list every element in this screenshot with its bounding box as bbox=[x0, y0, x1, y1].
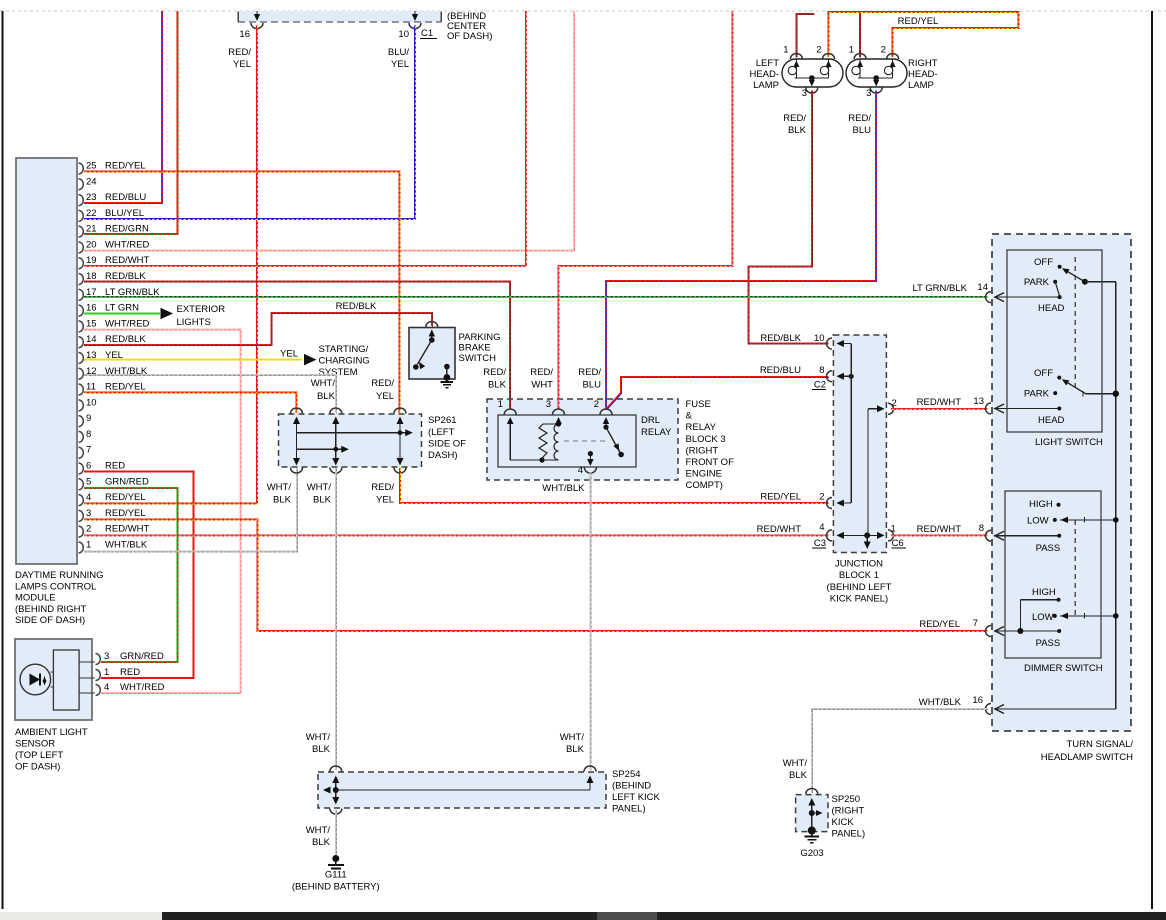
svg-text:RED/BLK: RED/BLK bbox=[105, 334, 146, 345]
svg-text:ENGINE: ENGINE bbox=[686, 469, 722, 480]
svg-text:BLU/YEL: BLU/YEL bbox=[105, 208, 144, 219]
svg-text:RED/: RED/ bbox=[530, 367, 553, 378]
svg-text:3: 3 bbox=[866, 88, 871, 99]
svg-text:19: 19 bbox=[86, 255, 97, 266]
relay pin 3 internal arrow bbox=[558, 423, 560, 424]
svg-text:1: 1 bbox=[498, 399, 503, 410]
splice SP250 box bbox=[796, 795, 828, 832]
svg-text:14: 14 bbox=[86, 334, 97, 345]
svg-text:2: 2 bbox=[86, 524, 91, 535]
svg-text:PARK: PARK bbox=[1024, 389, 1050, 400]
svg-text:AMBIENT LIGHT: AMBIENT LIGHT bbox=[15, 727, 88, 738]
splice SP261 box bbox=[279, 414, 422, 467]
junction C3-C6 internal bus bbox=[838, 534, 882, 536]
svg-text:SIDE OF: SIDE OF bbox=[428, 439, 466, 450]
svg-text:RED/WHT: RED/WHT bbox=[917, 397, 962, 408]
SP261 bottom arrow x=335.8 bbox=[332, 458, 339, 466]
svg-text:C6: C6 bbox=[892, 538, 904, 549]
light switch wafer 1 park link bbox=[1055, 282, 1059, 296]
parking brake switch fixed contact bbox=[444, 364, 450, 370]
module pin 7 bbox=[79, 447, 84, 458]
svg-text:HEADLAMP SWITCH: HEADLAMP SWITCH bbox=[1041, 752, 1133, 763]
svg-text:3: 3 bbox=[802, 88, 807, 99]
svg-text:RED/YEL: RED/YEL bbox=[105, 492, 146, 503]
svg-text:BLK: BLK bbox=[566, 744, 585, 755]
svg-text:5: 5 bbox=[86, 476, 91, 487]
module pin 14 bbox=[79, 337, 84, 348]
junction pin 8 cup bbox=[827, 371, 832, 382]
svg-text:BLK: BLK bbox=[788, 125, 807, 136]
svg-text:1: 1 bbox=[104, 667, 109, 678]
module pin 13 bbox=[79, 352, 84, 363]
svg-text:SP250: SP250 bbox=[832, 794, 861, 805]
svg-text:RED/: RED/ bbox=[371, 482, 394, 493]
svg-text:RED/YEL: RED/YEL bbox=[760, 492, 801, 503]
dimmer pin 8 line bbox=[994, 535, 1059, 537]
svg-text:C2: C2 bbox=[814, 380, 826, 391]
light switch pin 16 cup bbox=[986, 704, 991, 715]
svg-text:3: 3 bbox=[104, 651, 109, 662]
relay pin 3 cup bbox=[553, 409, 565, 414]
svg-text:RED/: RED/ bbox=[578, 367, 601, 378]
wire LT GRN/BLK module pin 17 to light switch pin 14 bbox=[84, 296, 988, 298]
wire RED/BLU junction C2 pin 8 to relay pin 2 bbox=[621, 377, 828, 394]
svg-text:WHT/BLK: WHT/BLK bbox=[919, 697, 962, 708]
junction internal vertical bus B bbox=[867, 409, 869, 536]
dimmer wafer 2 high link bbox=[1019, 600, 1021, 631]
svg-text:SYSTEM: SYSTEM bbox=[319, 367, 358, 378]
page left border bbox=[2, 11, 4, 909]
relay pin 1 cup bbox=[504, 409, 516, 414]
sensor pin 1 bbox=[79, 677, 95, 679]
svg-text:G203: G203 bbox=[800, 848, 823, 859]
junction internal vertical bus A bbox=[850, 344, 852, 504]
svg-text:3: 3 bbox=[86, 508, 91, 519]
wire RED/WHT junction pin 2 to light switch pin 13 bbox=[891, 408, 988, 410]
module pin 5 bbox=[79, 479, 84, 490]
svg-text:RED/GRN: RED/GRN bbox=[105, 224, 149, 235]
wire WHT/BLK module pin 1 to SP261 bbox=[84, 468, 297, 551]
svg-text:1: 1 bbox=[86, 539, 91, 550]
parking brake switch arm bbox=[429, 337, 435, 343]
svg-text:BRAKE: BRAKE bbox=[459, 343, 491, 354]
svg-text:LOW: LOW bbox=[1032, 612, 1054, 623]
svg-text:RED/: RED/ bbox=[483, 367, 506, 378]
SP261 bottom cup x=335.8 bbox=[330, 468, 342, 474]
svg-text:RED/: RED/ bbox=[848, 113, 871, 124]
svg-text:(BEHIND BATTERY): (BEHIND BATTERY) bbox=[292, 882, 380, 893]
svg-text:RED: RED bbox=[120, 667, 140, 678]
SP261 top arrow x=335.8 bbox=[335, 422, 337, 459]
junction pin 10 internal bbox=[838, 343, 851, 345]
svg-text:FUSE: FUSE bbox=[686, 399, 711, 410]
wire WHT/BLK light switch pin 16 to SP250 bbox=[812, 709, 988, 793]
svg-text:G111: G111 bbox=[325, 870, 347, 881]
svg-text:HIGH: HIGH bbox=[1032, 587, 1056, 598]
right headlamp bbox=[846, 59, 907, 87]
svg-text:RED/YEL: RED/YEL bbox=[898, 16, 939, 27]
wire WHT/BLK module pin 12 to SP261 bbox=[84, 375, 336, 413]
svg-text:RED: RED bbox=[105, 461, 125, 472]
svg-text:9: 9 bbox=[86, 413, 91, 424]
svg-text:WHT/RED: WHT/RED bbox=[120, 682, 164, 693]
svg-text:LOW: LOW bbox=[1027, 516, 1049, 527]
svg-text:BLOCK 3: BLOCK 3 bbox=[686, 434, 726, 445]
svg-text:7: 7 bbox=[86, 445, 91, 456]
SP254 internals bbox=[335, 782, 337, 798]
svg-text:1: 1 bbox=[891, 524, 896, 535]
svg-text:KICK PANEL): KICK PANEL) bbox=[830, 594, 888, 605]
svg-text:PARKING: PARKING bbox=[459, 332, 501, 343]
svg-text:DAYTIME RUNNING: DAYTIME RUNNING bbox=[15, 570, 104, 581]
dimmer pin 7 line bbox=[994, 630, 1059, 632]
svg-text:HEAD-: HEAD- bbox=[908, 69, 938, 80]
wire RED/YEL module pin 25 to SP261 bbox=[84, 172, 400, 414]
dimmer switch inner box bbox=[1005, 491, 1101, 658]
svg-text:CHARGING: CHARGING bbox=[319, 356, 370, 367]
splice SP254 box bbox=[318, 772, 606, 808]
relay pin 4 internal bbox=[588, 451, 593, 456]
svg-text:16: 16 bbox=[972, 695, 983, 706]
svg-text:1: 1 bbox=[849, 45, 854, 56]
wire RED/YEL SP261 to junction block pin 2 bbox=[400, 468, 829, 503]
module pin 23 bbox=[79, 195, 84, 206]
connector C1 box (behind center of dash) bbox=[238, 11, 441, 22]
svg-text:7: 7 bbox=[973, 618, 978, 629]
svg-text:WHT/: WHT/ bbox=[560, 732, 585, 743]
SP261 bottom cup x=400 bbox=[394, 468, 406, 474]
light switch pin 14 cup bbox=[986, 292, 992, 303]
svg-text:YEL: YEL bbox=[391, 59, 409, 70]
svg-text:(TOP LEFT: (TOP LEFT bbox=[15, 750, 63, 761]
wire WHT/BLK SP261 to SP254 bbox=[335, 468, 337, 770]
svg-text:WHT/: WHT/ bbox=[307, 482, 332, 493]
C1 pin 10 cup bbox=[409, 23, 421, 29]
svg-text:OF DASH): OF DASH) bbox=[15, 762, 60, 773]
svg-text:RED/WHT: RED/WHT bbox=[105, 524, 150, 535]
svg-text:18: 18 bbox=[86, 271, 97, 282]
svg-text:(LEFT: (LEFT bbox=[428, 427, 455, 438]
svg-text:RED/WHT: RED/WHT bbox=[917, 524, 962, 535]
svg-text:GRN/RED: GRN/RED bbox=[105, 476, 149, 487]
wire RED/GRN DRL module pin 21 off-page top bbox=[84, 11, 178, 234]
ambient light sensor inner connector bbox=[53, 650, 79, 710]
left headlamp bbox=[782, 59, 843, 87]
svg-text:DASH): DASH) bbox=[428, 450, 458, 461]
svg-text:4: 4 bbox=[104, 682, 109, 693]
svg-text:HEAD: HEAD bbox=[1038, 303, 1065, 314]
ambient light sensor photodiode symbol bbox=[30, 674, 41, 686]
svg-text:HEAD-: HEAD- bbox=[749, 69, 779, 80]
svg-text:LIGHTS: LIGHTS bbox=[177, 317, 211, 328]
wire RED/YEL C1 pin 16 to DRL module pin 4 bbox=[84, 26, 257, 504]
wire RED left headlamp pin 1 stub to top border bbox=[796, 14, 814, 57]
svg-text:BLK: BLK bbox=[789, 770, 808, 781]
svg-text:PASS: PASS bbox=[1036, 638, 1061, 649]
light switch long vertical bus bbox=[1115, 282, 1117, 709]
svg-text:2: 2 bbox=[819, 492, 824, 503]
parking brake switch ground bbox=[444, 374, 451, 381]
svg-text:WHT/BLK: WHT/BLK bbox=[105, 539, 148, 550]
relay pin 4 cup bbox=[584, 468, 596, 474]
ambient light sensor photocell circle bbox=[20, 664, 51, 695]
module pin 4 bbox=[79, 495, 84, 506]
dimmer gang link dashed bbox=[1074, 520, 1076, 616]
page top dashed border bbox=[0, 10, 1166, 12]
ambient light sensor box bbox=[15, 639, 92, 720]
wire GRN/RED module pin 5 to ambient light sensor pin 3 bbox=[84, 488, 177, 662]
svg-text:(BEHIND LEFT: (BEHIND LEFT bbox=[827, 582, 892, 593]
dimmer pin 7 cup bbox=[986, 626, 992, 637]
svg-text:(RIGHT: (RIGHT bbox=[832, 806, 865, 817]
svg-text:RED/WHT: RED/WHT bbox=[757, 524, 802, 535]
svg-text:2: 2 bbox=[881, 45, 886, 56]
svg-text:2: 2 bbox=[816, 45, 821, 56]
C1 pin 16 arrow bbox=[256, 11, 258, 17]
ground G111 bbox=[332, 855, 339, 862]
relay pin 2 internal switch bbox=[605, 423, 607, 427]
wire RED/WHT DRL module pin 19 off-page top bbox=[84, 11, 526, 266]
junction pin 2 right internal bbox=[868, 408, 882, 410]
svg-text:20: 20 bbox=[86, 239, 97, 250]
SP250 internals bbox=[811, 804, 813, 829]
svg-text:16: 16 bbox=[239, 29, 250, 40]
svg-text:RED/BLK: RED/BLK bbox=[760, 333, 801, 344]
svg-text:RED/WHT: RED/WHT bbox=[105, 255, 150, 266]
svg-text:LIGHT SWITCH: LIGHT SWITCH bbox=[1035, 437, 1103, 448]
svg-text:SWITCH: SWITCH bbox=[459, 353, 497, 364]
svg-text:YEL: YEL bbox=[280, 349, 298, 360]
scrollbar track bottom bbox=[0, 912, 1166, 920]
svg-text:10: 10 bbox=[398, 29, 409, 40]
svg-text:EXTERIOR: EXTERIOR bbox=[177, 304, 226, 315]
junction pin 8 internal bbox=[838, 375, 851, 377]
SP250 top cup bbox=[806, 789, 818, 794]
svg-text:BLK: BLK bbox=[312, 744, 331, 755]
svg-text:BLK: BLK bbox=[313, 495, 332, 506]
parking brake switch cup bbox=[426, 322, 438, 328]
relay pin 1 internal bbox=[509, 423, 511, 460]
wire RED/BLK left headlamp pin 3 to junction block pin 10 bbox=[749, 91, 829, 344]
svg-text:RELAY: RELAY bbox=[641, 427, 672, 438]
svg-text:COMPT): COMPT) bbox=[686, 480, 723, 491]
svg-text:LAMP: LAMP bbox=[753, 80, 779, 91]
svg-text:2: 2 bbox=[892, 398, 897, 409]
svg-text:HIGH: HIGH bbox=[1029, 499, 1053, 510]
module pin 24 bbox=[79, 179, 84, 190]
svg-text:WHT/RED: WHT/RED bbox=[105, 239, 149, 250]
module pin 25 bbox=[79, 163, 84, 174]
exterior lights arrow bbox=[161, 308, 174, 319]
module pin 8 bbox=[79, 431, 84, 442]
svg-text:LAMP: LAMP bbox=[908, 80, 934, 91]
svg-text:4: 4 bbox=[86, 492, 91, 503]
wire RED/YEL module pin 3 to dimmer switch pin 7 bbox=[84, 520, 988, 632]
svg-text:15: 15 bbox=[86, 318, 97, 329]
svg-text:10: 10 bbox=[814, 333, 825, 344]
svg-text:PANEL): PANEL) bbox=[612, 804, 646, 815]
wire RED/YEL module pin 4 (joins C1-16 riser) bbox=[84, 503, 257, 505]
svg-text:BLU: BLU bbox=[853, 125, 872, 136]
svg-text:RED/BLU: RED/BLU bbox=[105, 192, 146, 203]
module pin 16 bbox=[79, 305, 84, 316]
svg-text:RED/YEL: RED/YEL bbox=[105, 382, 146, 393]
svg-text:SP254: SP254 bbox=[612, 769, 641, 780]
svg-text:WHT/: WHT/ bbox=[267, 482, 292, 493]
svg-text:WHT/: WHT/ bbox=[783, 758, 808, 769]
svg-text:DRL: DRL bbox=[641, 415, 660, 426]
module pin 9 bbox=[79, 416, 84, 427]
dimmer pin 8 cup bbox=[986, 530, 992, 541]
svg-text:RELAY: RELAY bbox=[686, 422, 717, 433]
wire WHT/RED DRL module pin 20 off-page top bbox=[84, 11, 574, 250]
svg-text:LAMPS CONTROL: LAMPS CONTROL bbox=[15, 581, 96, 592]
svg-text:WHT/RED: WHT/RED bbox=[105, 318, 149, 329]
light switch pin 13 line bbox=[994, 408, 1059, 410]
SP261 internal bus 1 bbox=[297, 432, 409, 434]
svg-text:4: 4 bbox=[819, 522, 824, 533]
module pin 19 bbox=[79, 258, 84, 269]
wire LT GRN module pin 16 to exterior lights bbox=[84, 313, 160, 315]
svg-text:KICK: KICK bbox=[832, 817, 855, 828]
svg-text:25: 25 bbox=[86, 161, 97, 172]
relay coil resistor bbox=[539, 424, 547, 460]
sensor pin 3 bbox=[79, 661, 95, 663]
svg-text:(BEHIND RIGHT: (BEHIND RIGHT bbox=[15, 604, 86, 615]
junction pin 2 left cup bbox=[827, 498, 832, 509]
svg-text:YEL: YEL bbox=[376, 495, 394, 506]
SP250 ground dot bbox=[808, 827, 816, 835]
svg-text:OFF: OFF bbox=[1034, 368, 1053, 379]
svg-text:WHT/: WHT/ bbox=[311, 378, 336, 389]
svg-text:8: 8 bbox=[979, 523, 984, 534]
light switch pin 13 cup bbox=[986, 403, 992, 414]
junction C3 cup bbox=[827, 530, 832, 541]
svg-text:OF DASH): OF DASH) bbox=[447, 31, 492, 42]
starting charging system arrow bbox=[304, 354, 317, 366]
wire RED/WHT module pin 2 to junction block C3 pin 4 bbox=[84, 535, 829, 537]
svg-text:RED/: RED/ bbox=[228, 47, 251, 58]
SP254 left top cup bbox=[330, 766, 342, 771]
module pin 10 bbox=[79, 400, 84, 411]
svg-text:11: 11 bbox=[86, 382, 96, 393]
wire RED/BLK stub into relay pin 1 bbox=[509, 399, 511, 410]
wire RED/WHT off-page top to DRL relay pin 3 bbox=[559, 11, 733, 400]
svg-text:HEAD: HEAD bbox=[1038, 415, 1065, 426]
svg-text:RED/YEL: RED/YEL bbox=[105, 161, 146, 172]
junction pin 2 right cup bbox=[888, 403, 894, 414]
light switch gang link dashed bbox=[1074, 257, 1076, 392]
SP261 top cup x=400 bbox=[394, 408, 406, 413]
svg-text:SENSOR: SENSOR bbox=[15, 739, 55, 750]
parking brake switch arrow bbox=[431, 333, 433, 338]
SP261 top cup x=335.8 bbox=[330, 408, 342, 413]
svg-text:DIMMER SWITCH: DIMMER SWITCH bbox=[1024, 663, 1103, 674]
svg-text:8: 8 bbox=[86, 429, 91, 440]
svg-text:C3: C3 bbox=[814, 538, 826, 549]
module pin 22 bbox=[79, 210, 84, 221]
module pin 18 bbox=[79, 274, 84, 285]
svg-text:SP261: SP261 bbox=[428, 415, 457, 426]
svg-text:TURN SIGNAL/: TURN SIGNAL/ bbox=[1066, 739, 1133, 750]
svg-text:13: 13 bbox=[973, 396, 984, 407]
svg-text:RED/YEL: RED/YEL bbox=[919, 619, 960, 630]
module pin 20 bbox=[79, 242, 84, 253]
light switch pin 14 line bbox=[994, 296, 1060, 298]
wire RED/BLK module pin 18 to DRL relay pin 1 bbox=[84, 281, 510, 400]
svg-text:8: 8 bbox=[819, 365, 824, 376]
svg-text:21: 21 bbox=[86, 224, 97, 235]
svg-text:&: & bbox=[686, 411, 693, 422]
svg-text:STARTING/: STARTING/ bbox=[319, 344, 369, 355]
module pin 12 bbox=[79, 368, 84, 379]
svg-text:4: 4 bbox=[578, 465, 583, 476]
wire RED/BLK module pin 14 to parking brake switch bbox=[84, 313, 432, 345]
SP254 right top cup bbox=[584, 766, 596, 771]
C1 pin 16 cup bbox=[251, 23, 263, 29]
svg-text:JUNCTION: JUNCTION bbox=[835, 559, 883, 570]
wire RED/WHT junction C6 pin 1 to dimmer pin 8 bbox=[891, 534, 988, 536]
svg-text:OFF: OFF bbox=[1034, 257, 1053, 268]
svg-text:WHT: WHT bbox=[531, 380, 553, 391]
module pin 11 bbox=[79, 384, 84, 395]
svg-text:LEFT KICK: LEFT KICK bbox=[612, 792, 661, 803]
svg-text:PASS: PASS bbox=[1036, 543, 1061, 554]
junction C6 cup bbox=[888, 530, 894, 541]
SP261 top cup x=296.5 bbox=[291, 408, 303, 413]
wire RED/YEL headlamp feed (left pin 2 / right pin 2) bbox=[829, 12, 1019, 57]
module pin 3 bbox=[79, 510, 84, 521]
svg-text:BLK: BLK bbox=[273, 495, 292, 506]
svg-text:23: 23 bbox=[86, 192, 97, 203]
svg-text:FRONT OF: FRONT OF bbox=[686, 457, 735, 468]
wire RED/WHT stub into relay pin 3 bbox=[558, 399, 560, 410]
svg-text:RIGHT: RIGHT bbox=[908, 58, 938, 69]
SP261 bottom arrow x=296.5 bbox=[293, 458, 300, 466]
module pin 1 bbox=[79, 542, 84, 553]
relay actuation dashed link bbox=[564, 440, 609, 442]
light switch pin 16 line bbox=[994, 708, 1116, 710]
svg-text:C1: C1 bbox=[421, 28, 433, 39]
svg-text:GRN/RED: GRN/RED bbox=[120, 651, 164, 662]
svg-text:RED/YEL: RED/YEL bbox=[105, 508, 146, 519]
svg-text:10: 10 bbox=[86, 397, 97, 408]
svg-text:2: 2 bbox=[594, 399, 599, 410]
wire RED/BLU DRL module pin 23 off-page top bbox=[84, 11, 162, 203]
module pin 15 bbox=[79, 321, 84, 332]
turn signal / headlamp switch outer box bbox=[992, 234, 1131, 731]
relay pin 2 cup bbox=[600, 409, 612, 414]
SP261 top arrow x=400 bbox=[399, 422, 401, 459]
wire WHT/BLK relay pin 4 to SP254 bbox=[589, 472, 591, 770]
wire RED/BLU jog into relay pin 2 bbox=[607, 393, 621, 409]
wire YEL module pin 13 to starting/charging system bbox=[84, 359, 302, 361]
svg-text:BLK: BLK bbox=[488, 380, 507, 391]
svg-text:PARK: PARK bbox=[1024, 277, 1050, 288]
svg-text:(RIGHT: (RIGHT bbox=[686, 445, 719, 456]
junction pin 10 cup bbox=[827, 338, 832, 349]
module pin 6 bbox=[79, 463, 84, 474]
light switch wafer 2 arm bbox=[1064, 381, 1085, 394]
SP261 bottom arrow x=400 bbox=[397, 458, 404, 466]
svg-text:RED/: RED/ bbox=[371, 378, 394, 389]
svg-text:RED/: RED/ bbox=[783, 113, 806, 124]
svg-text:16: 16 bbox=[86, 303, 97, 314]
svg-text:MODULE: MODULE bbox=[15, 593, 56, 604]
svg-text:BLK: BLK bbox=[317, 391, 336, 402]
svg-text:6: 6 bbox=[86, 461, 91, 472]
relay coil inductor bbox=[554, 424, 559, 460]
